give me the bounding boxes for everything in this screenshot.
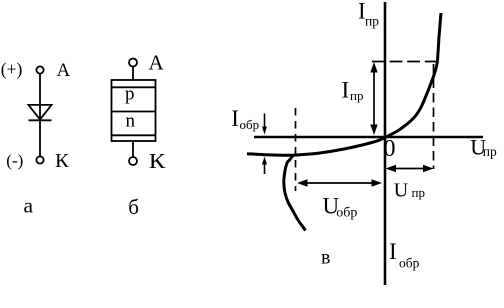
svg-text:I: I — [389, 239, 397, 264]
svg-text:К: К — [55, 150, 69, 172]
diode cathode bar — [29, 119, 52, 121]
wire anode (pn structure) — [132, 66, 134, 80]
I obr small measuring arrows — [262, 114, 267, 175]
forward and reverse V-A characteristic curve — [247, 13, 441, 155]
svg-text:б: б — [128, 195, 139, 219]
U pr measuring double arrow — [386, 165, 434, 172]
vertical current axis — [384, 2, 387, 285]
bottom contact band line — [112, 134, 156, 136]
svg-text:пр: пр — [483, 144, 497, 159]
terminal A circle (pn structure) — [129, 59, 137, 67]
svg-text:0: 0 — [384, 136, 396, 162]
svg-text:пр: пр — [350, 88, 363, 103]
terminal K circle (pn structure) — [129, 157, 137, 165]
svg-text:в: в — [321, 246, 330, 268]
svg-text:обр: обр — [240, 117, 260, 132]
svg-text:p: p — [125, 84, 135, 105]
svg-text:U: U — [394, 180, 409, 202]
svg-text:а: а — [24, 194, 34, 218]
svg-text:(+): (+) — [1, 59, 23, 79]
svg-text:A: A — [149, 51, 165, 75]
I pr measuring double arrow — [370, 62, 377, 135]
svg-text:пр: пр — [365, 14, 379, 29]
svg-text:A: A — [57, 60, 71, 81]
dashed level line U obr — [295, 108, 297, 191]
horizontal voltage axis — [254, 136, 483, 139]
svg-text:пр: пр — [412, 185, 425, 200]
dashed level line I pr — [372, 61, 438, 63]
svg-text:К: К — [149, 149, 167, 173]
wire cathode (pn structure) — [132, 141, 134, 157]
pn structure body rectangle — [112, 80, 156, 141]
svg-text:обр: обр — [399, 256, 420, 271]
U obr measuring double arrow — [297, 179, 382, 186]
terminal A circle (diode symbol) — [36, 66, 43, 73]
wire anode to cathode through diode — [39, 74, 41, 157]
top contact band line — [112, 86, 156, 88]
pn junction divider line — [112, 111, 156, 113]
terminal K circle (diode symbol) — [36, 156, 43, 163]
svg-text:n: n — [126, 111, 136, 132]
reverse breakdown branch — [284, 156, 306, 231]
svg-text:I: I — [342, 78, 350, 103]
diode VD triangle — [29, 105, 52, 120]
dashed level line U pr — [433, 64, 435, 169]
svg-text:(-): (-) — [6, 151, 23, 170]
svg-text:I: I — [231, 106, 239, 131]
svg-text:обр: обр — [336, 205, 357, 220]
